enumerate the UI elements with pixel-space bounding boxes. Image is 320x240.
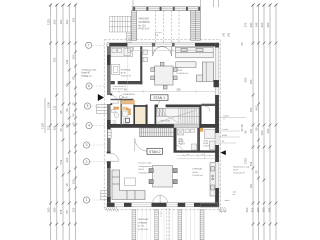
svg-text:P=10.5 m²: P=10.5 m² xyxy=(139,28,150,31)
panel box above middle wall xyxy=(126,118,130,122)
kitchen text upper xyxy=(121,68,131,77)
lower partition wall 1 xyxy=(174,128,177,152)
svg-text:P=8.40 m²: P=8.40 m² xyxy=(193,174,203,177)
svg-text:1: 1 xyxy=(86,198,88,202)
door jamb marks entry xyxy=(110,93,112,105)
dining table lower xyxy=(149,166,177,188)
svg-text:1135: 1135 xyxy=(41,123,45,129)
svg-text:šir. 110: šir. 110 xyxy=(139,24,147,27)
svg-text:TERASA: TERASA xyxy=(138,221,147,224)
gredice note text left xyxy=(82,70,98,78)
svg-text:Natkrivena t. jed.: Natkrivena t. jed. xyxy=(233,166,250,169)
svg-text:16x17.5/28: 16x17.5/28 xyxy=(161,121,170,123)
section marker triangle right xyxy=(220,150,225,155)
orange fixture marks bathroom xyxy=(113,107,128,111)
svg-text:95: 95 xyxy=(71,76,75,80)
understair shelves xyxy=(157,109,165,116)
leader dims right of bedroom wall xyxy=(219,131,240,143)
top exterior wall xyxy=(107,43,219,47)
svg-text:300: 300 xyxy=(260,22,264,27)
sofa upper (L-shape) xyxy=(197,62,214,82)
orange closet lower apartment xyxy=(200,128,204,132)
svg-text:2762: 2762 xyxy=(244,157,248,164)
svg-text:300: 300 xyxy=(256,207,260,212)
svg-text:300: 300 xyxy=(65,19,69,24)
top witness ticks xyxy=(133,0,219,7)
outdoor stair text block xyxy=(139,18,151,31)
svg-text:Dnevna soba: Dnevna soba xyxy=(139,163,153,165)
closet top wall xyxy=(133,105,147,107)
svg-text:KUPAONICA: KUPAONICA xyxy=(123,93,135,96)
kitchen partition wall horizontal xyxy=(111,81,143,84)
svg-text:150: 150 xyxy=(249,79,253,84)
svg-text:2: 2 xyxy=(86,160,88,164)
outdoor stair grid top-left xyxy=(110,16,133,43)
hatch marks under wall left xyxy=(106,207,119,212)
lower hall door arc xyxy=(177,146,183,152)
STAN 2 label box xyxy=(147,148,163,154)
svg-text:60: 60 xyxy=(71,122,75,126)
svg-text:360: 360 xyxy=(245,207,249,212)
hatch under bottom-right corner xyxy=(218,207,227,211)
lower bathroom fixtures xyxy=(178,129,197,150)
svg-text:110: 110 xyxy=(249,183,253,188)
right dimension numbers xyxy=(240,22,272,212)
svg-text:VANJSKO: VANJSKO xyxy=(139,18,150,21)
kitchen door gap xyxy=(115,81,118,85)
svg-text:140: 140 xyxy=(65,59,69,64)
svg-text:P=4 m²: P=4 m² xyxy=(179,143,186,146)
svg-text:378: 378 xyxy=(59,209,63,214)
svg-text:5: 5 xyxy=(87,104,89,108)
bath texts small xyxy=(123,93,135,102)
kitchen partition wall vertical xyxy=(140,46,142,84)
STAN 2 entry door gap xyxy=(107,153,111,161)
door arc at lower stair bottom xyxy=(135,138,148,151)
living text lower xyxy=(139,163,154,175)
STAN 1 label box xyxy=(151,95,169,101)
svg-text:25: 25 xyxy=(240,42,244,46)
svg-text:1135: 1135 xyxy=(46,19,50,25)
svg-text:Br.06: Br.06 xyxy=(193,171,199,174)
svg-text:Br.01 P=3.6: Br.01 P=3.6 xyxy=(113,89,124,91)
svg-text:750: 750 xyxy=(53,57,57,62)
window sill dim row under top wall xyxy=(127,49,195,52)
svg-text:KUHINJA: KUHINJA xyxy=(121,68,131,71)
svg-text:245: 245 xyxy=(228,32,231,37)
svg-text:P=8 m²: P=8 m² xyxy=(204,145,211,148)
svg-text:STAN 2: STAN 2 xyxy=(149,150,161,154)
svg-text:95: 95 xyxy=(65,210,69,214)
left exterior wall xyxy=(107,43,111,207)
svg-text:Br.05: Br.05 xyxy=(121,71,127,74)
svg-text:16 2x5: 16 2x5 xyxy=(155,32,162,34)
svg-text:i blagovaonica: i blagovaonica xyxy=(139,166,154,168)
svg-text:hrast 40: hrast 40 xyxy=(82,72,91,75)
svg-text:06.01: 06.01 xyxy=(139,169,145,171)
kitchen small table xyxy=(112,65,120,75)
svg-text:šir. 90: šir. 90 xyxy=(138,225,145,228)
svg-text:100: 100 xyxy=(260,130,264,135)
right exterior wall xyxy=(215,43,219,207)
svg-text:4: 4 xyxy=(88,124,90,128)
svg-text:533: 533 xyxy=(59,159,63,164)
kitchen stool squares right of wall xyxy=(143,50,147,62)
grid bubbles with leaders xyxy=(83,42,107,203)
dim row below lower h-wall xyxy=(177,154,216,157)
svg-text:STAN 1: STAN 1 xyxy=(153,96,165,100)
svg-text:295: 295 xyxy=(268,207,272,212)
bath partition small vertical xyxy=(121,100,122,126)
top pergola beam band with posts xyxy=(132,7,200,11)
kitchen balcony door arc xyxy=(128,46,134,52)
kitchen text lower xyxy=(193,168,203,178)
svg-text:360: 360 xyxy=(71,54,75,59)
svg-text:106: 106 xyxy=(53,125,57,130)
kitchen counter top-right xyxy=(176,47,214,58)
svg-text:95: 95 xyxy=(59,110,63,114)
closet right wall xyxy=(145,105,147,124)
hall wall above stair xyxy=(156,105,202,108)
svg-text:3: 3 xyxy=(86,143,88,147)
svg-text:453: 453 xyxy=(244,77,248,82)
svg-text:1330: 1330 xyxy=(46,101,50,108)
lower stair flight (vertical treads) xyxy=(140,128,174,137)
door jambs STAN 2 entry xyxy=(107,152,111,164)
svg-text:VANJSKA: VANJSKA xyxy=(138,218,148,221)
stair tiny text xyxy=(161,121,170,123)
bottom exterior wall xyxy=(107,203,219,207)
svg-text:100: 100 xyxy=(266,128,270,133)
svg-text:05.06: 05.06 xyxy=(177,70,183,72)
svg-text:150: 150 xyxy=(249,107,253,112)
sofa lower left (L-shape) xyxy=(112,170,145,200)
entry door arc upper xyxy=(111,95,119,103)
closet left wall xyxy=(133,105,135,124)
svg-text:P=10.00 m²: P=10.00 m² xyxy=(233,172,245,175)
stair right wall upper xyxy=(199,105,201,130)
svg-text:18: 18 xyxy=(65,183,69,187)
svg-text:275: 275 xyxy=(244,22,248,27)
connector hatch below stair grid xyxy=(127,34,132,43)
svg-text:300: 300 xyxy=(46,207,50,212)
left dimension tick marks xyxy=(49,42,77,226)
svg-text:6: 6 xyxy=(88,84,90,88)
svg-text:80/60: 80/60 xyxy=(222,135,228,137)
svg-text:112: 112 xyxy=(46,125,50,130)
tiny texts above middle wall xyxy=(113,121,118,126)
closet room cream fill xyxy=(135,107,145,124)
middle dividing wall xyxy=(107,124,219,128)
interior long dim line upper xyxy=(111,90,216,93)
svg-text:95: 95 xyxy=(244,130,248,134)
radiator niche left wall lower xyxy=(108,130,112,139)
svg-text:PHILE m²: PHILE m² xyxy=(82,75,92,78)
lower hall boundary line xyxy=(177,153,216,159)
right dimension arrowheads top xyxy=(251,4,277,7)
svg-text:GREDICE 5x5: GREDICE 5x5 xyxy=(82,70,98,72)
hall small circle symbol xyxy=(119,95,122,98)
hall wall right segment xyxy=(202,104,216,106)
svg-text:140: 140 xyxy=(223,32,226,37)
orange new wall horizontal xyxy=(121,100,135,104)
kitchen counter upper xyxy=(111,47,133,57)
lower bedroom furniture xyxy=(205,130,216,150)
svg-text:P=26.60 m²: P=26.60 m² xyxy=(139,171,151,174)
top small dim texts near right corner xyxy=(223,32,231,37)
svg-text:30: 30 xyxy=(59,128,63,132)
svg-text:360: 360 xyxy=(53,19,57,24)
right outside text small 2 xyxy=(233,192,237,197)
entrance steps STAN 2 outside left wall xyxy=(101,191,107,200)
hall tiny text rows xyxy=(113,86,127,91)
hall door arc right xyxy=(205,106,211,112)
svg-text:90: 90 xyxy=(65,83,69,87)
lower hall texts xyxy=(179,139,211,148)
top pergola dashed rafters xyxy=(156,11,179,43)
svg-text:STUBIŠTE: STUBIŠTE xyxy=(139,21,151,24)
svg-text:P=21.0 m²: P=21.0 m² xyxy=(138,228,148,231)
svg-text:120: 120 xyxy=(71,179,75,184)
right dimension chain lines xyxy=(253,4,276,240)
coffee table lower xyxy=(125,178,136,186)
top small text above wall center xyxy=(155,32,162,37)
WC fixtures upper xyxy=(112,110,129,124)
svg-text:111: 111 xyxy=(53,105,57,110)
svg-text:10 90: 10 90 xyxy=(161,211,163,217)
dining table upper xyxy=(151,62,177,89)
top pergola left post xyxy=(132,11,137,41)
annotation leader right wall xyxy=(219,115,246,121)
svg-text:461: 461 xyxy=(254,105,258,110)
section marker triangle left xyxy=(98,94,104,101)
svg-text:P=30.00 m²: P=30.00 m² xyxy=(177,72,189,75)
svg-text:25: 25 xyxy=(71,102,75,106)
roof overhang dashed outline xyxy=(104,40,221,210)
svg-text:363: 363 xyxy=(71,207,75,212)
entrance outside steps xyxy=(97,105,108,114)
svg-text:P=4.10 m²: P=4.10 m² xyxy=(123,99,133,102)
svg-text:90: 90 xyxy=(65,108,69,112)
living text upper xyxy=(177,64,191,76)
bottom deck dashed lines xyxy=(167,208,170,240)
witness line at kitchen door xyxy=(127,53,129,92)
hall door arc above stair xyxy=(158,98,166,106)
svg-text:90: 90 xyxy=(254,127,258,131)
svg-text:110: 110 xyxy=(249,128,253,133)
hall wall door gap xyxy=(158,104,166,107)
svg-text:453: 453 xyxy=(251,207,255,212)
kitchen island upper xyxy=(176,62,196,68)
dark block at right wall xyxy=(214,80,219,87)
stair left wall upper xyxy=(155,105,157,126)
svg-text:120/60: 120/60 xyxy=(222,129,229,131)
kitchen counter lower xyxy=(210,163,215,197)
STAN 2 entry door arc xyxy=(111,153,119,161)
balcony french door arcs xyxy=(153,46,172,56)
svg-text:90: 90 xyxy=(71,113,75,117)
svg-text:300: 300 xyxy=(177,89,182,92)
bottom deck text xyxy=(138,218,148,231)
svg-text:300: 300 xyxy=(266,22,270,27)
left dimension chain lines xyxy=(45,4,76,240)
bathroom orange fixture marks left of closet xyxy=(128,109,131,116)
bottom small dim 90 xyxy=(161,211,163,217)
svg-text:380: 380 xyxy=(53,207,57,212)
svg-text:461: 461 xyxy=(65,157,69,162)
main stair upper flight (vertical treads) xyxy=(156,108,199,124)
svg-text:7: 7 xyxy=(88,43,90,47)
right dimension tick marks xyxy=(252,42,278,226)
svg-text:390: 390 xyxy=(249,22,253,27)
bottom deck posts (ladder hatch) xyxy=(132,210,204,240)
svg-text:25 18: 25 18 xyxy=(240,124,244,131)
svg-text:P=8.00 m²: P=8.00 m² xyxy=(121,75,131,78)
svg-text:sat: sat xyxy=(233,193,236,196)
top pergola right post xyxy=(191,11,201,41)
svg-text:KUHINJA: KUHINJA xyxy=(193,168,203,171)
svg-text:55: 55 xyxy=(254,170,258,174)
svg-text:300: 300 xyxy=(262,207,266,212)
double door arcs bottom xyxy=(153,195,168,202)
svg-text:90: 90 xyxy=(65,124,69,128)
left dimension numbers xyxy=(41,17,76,214)
right outside text: heat pump note xyxy=(233,166,250,175)
bottom deck boards (light vertical lines) xyxy=(138,208,200,240)
svg-text:Br.07: Br.07 xyxy=(233,169,239,172)
svg-text:145: 145 xyxy=(254,22,258,27)
bath horizontal wall xyxy=(111,99,134,100)
lower horizontal wall xyxy=(174,150,219,152)
svg-text:300: 300 xyxy=(71,17,75,22)
left dimension arrowheads top xyxy=(49,4,77,7)
dim ticks below bottom-right xyxy=(219,210,226,213)
lower partition wall 2 xyxy=(197,128,200,152)
svg-text:160: 160 xyxy=(59,19,63,24)
